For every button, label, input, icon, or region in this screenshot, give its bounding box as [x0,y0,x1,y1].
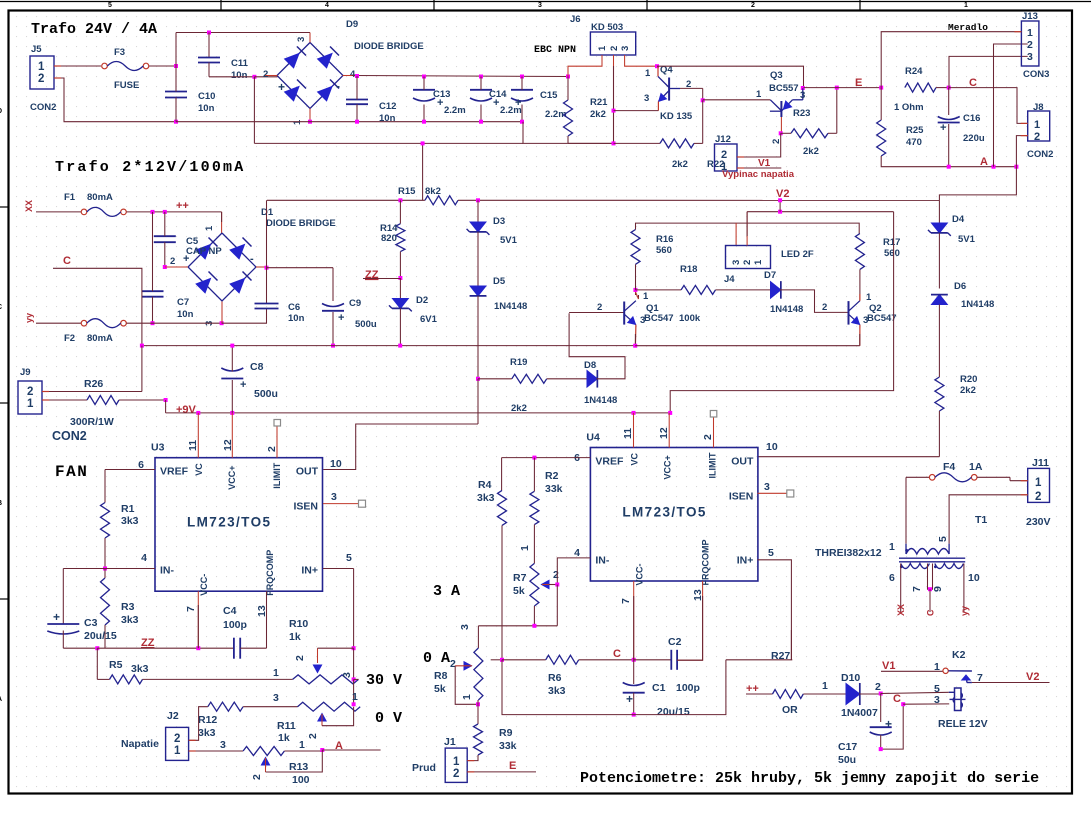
svg-text:KD 135: KD 135 [660,111,693,122]
wire J13 pin1 [1016,31,1021,33]
node KD135 collector [655,64,659,68]
svg-text:CON2: CON2 [52,429,87,443]
wire bridge D9 pin4 stub [343,75,353,77]
wire R21 top lead [567,77,569,101]
svg-text:ISEN: ISEN [729,491,754,503]
wire C15 leads [521,77,523,90]
wire R19 leads [478,378,512,380]
svg-text:2k2: 2k2 [511,403,527,414]
resistor R20 2k2 [935,377,944,411]
resistor R16 560 [631,230,640,265]
wire Q2 emitter down [859,325,861,346]
svg-text:1: 1 [38,61,45,73]
node Q3 base [779,131,783,135]
node C13 bottom [422,120,426,124]
resistor R25 470 [877,120,886,156]
wire J2 pin1 to R13 [189,750,243,752]
wire R3 bottom [104,625,106,648]
node lower rail feed [421,141,425,145]
svg-text:1: 1 [643,291,649,302]
svg-text:4: 4 [141,552,147,564]
svg-text:C: C [613,648,621,660]
node C5 top [163,210,167,214]
wire J9 pin2 riser [141,346,143,392]
transformer T1 secondary B [935,564,964,569]
svg-text:5: 5 [768,547,774,559]
node C14 bottom [479,120,483,124]
wire mid rail [142,345,635,347]
wire Q1 emitter [634,325,637,346]
wire pin3 row to C6 bottom [222,309,267,324]
svg-text:7: 7 [185,606,197,612]
fuse F4 1A [929,475,935,481]
svg-text:Vypinac napatia: Vypinac napatia [722,169,795,180]
svg-text:B: B [0,500,2,507]
svg-text:10n: 10n [288,313,305,324]
wire F1 to bridge D1 top rail [127,211,222,213]
node C7 bottom [151,321,155,325]
svg-text:2k2: 2k2 [672,159,688,170]
fuse F1 80mA [81,209,87,215]
wire R18 to D7 [716,289,771,291]
wire U4 pin7 stub [633,581,635,660]
node J13 pin2 column bottom [992,165,996,169]
svg-text:2: 2 [597,302,602,313]
wire R20 to U4 OUT [938,411,940,457]
svg-text:3: 3 [800,90,805,101]
node R10 right [352,677,356,681]
wire R12 to R11 [243,706,297,708]
svg-text:+: + [626,692,633,706]
svg-text:3: 3 [273,692,279,704]
wire bridge D1 pin1 stub [221,212,223,233]
wire R6 to C node [579,659,634,661]
svg-text:VCC-: VCC- [199,574,209,596]
wire R5 to R10 [143,678,293,680]
diode D7 1N4148 [771,282,781,299]
svg-text:J13: J13 [1022,11,1038,22]
wire C16 bottom [948,124,950,167]
svg-text:7: 7 [620,598,632,604]
svg-text:V2: V2 [1026,671,1039,683]
wire R10 right to R11 pin1 [354,678,359,680]
svg-text:7: 7 [911,586,923,592]
svg-text:C7: C7 [177,297,189,308]
svg-text:IN-: IN- [160,565,175,577]
capacitor C5 CAP NP [154,235,176,237]
svg-text:J11: J11 [1032,457,1049,469]
capacitor C16 220u [948,88,950,115]
svg-text:3k3: 3k3 [548,685,566,697]
op-amp regulator U4 LM723/TO5 box [590,448,758,582]
svg-text:1: 1 [645,68,651,79]
svg-text:+: + [493,97,499,109]
wire C14 leads [480,77,482,90]
node +9V rail right end [668,411,672,415]
svg-text:6: 6 [889,572,895,584]
svg-text:R5: R5 [109,659,123,671]
node bridge D9 pin1 [308,120,312,124]
wire bottom rail section1 [176,121,523,123]
wire R10 wiper to pin3 link [318,647,354,649]
svg-text:1: 1 [1027,27,1033,39]
svg-text:100p: 100p [223,619,247,631]
wire VCC link row [747,211,894,213]
connector J9 [18,381,42,414]
wire bridge output to C9 [267,267,334,269]
wire relay NO to V2 [972,682,1050,684]
svg-text:FUSE: FUSE [114,80,139,91]
svg-text:560: 560 [884,248,900,259]
svg-text:LED 2F: LED 2F [781,249,814,260]
svg-text:+: + [53,610,60,624]
svg-text:500u: 500u [254,388,278,400]
svg-text:470: 470 [906,137,922,148]
svg-text:CON3: CON3 [1023,69,1049,80]
svg-text:F3: F3 [114,47,125,58]
node C8 top [230,344,234,348]
transformer T1 secondary A [901,564,930,569]
wire V2 rail left end [267,199,425,201]
svg-text:1N4148: 1N4148 [494,301,527,312]
svg-text:J2: J2 [167,710,179,722]
svg-text:Trafo 24V / 4A: Trafo 24V / 4A [31,21,157,38]
wire R21 bottom lead [567,136,569,143]
svg-text:2: 2 [1035,491,1041,503]
svg-text:3: 3 [863,315,868,326]
wire bridge D1 pin3 stub [221,302,223,324]
svg-text:C4: C4 [223,605,237,617]
wire C8 top lead [231,346,233,372]
wire to fuse F4 [906,476,929,478]
wire IN+ link [726,659,792,661]
svg-text:1: 1 [174,745,181,757]
svg-text:10: 10 [968,572,980,584]
wire C5 bottom to bridge pin2 [164,242,166,267]
node R25 top [879,86,883,90]
svg-text:1k: 1k [278,732,290,744]
svg-text:D6: D6 [954,281,966,292]
wire F4 to J11 pin1 [977,476,1010,478]
node ZZ rail R5 tap [95,646,99,650]
resistor R22 2k2 [660,139,694,148]
svg-text:yy: yy [24,313,34,323]
resistor R2 33k [530,491,539,524]
wire U3 pin7 stub [197,591,199,648]
node KD503 pin2 bottom rail [612,141,616,145]
wire ZZ stub [363,278,400,280]
svg-text:R3: R3 [121,601,135,613]
svg-text:3: 3 [731,260,742,265]
svg-text:1: 1 [204,225,215,231]
wire C13 leads [423,77,425,90]
svg-text:K2: K2 [952,649,966,661]
wire C4 to U3 pin13 [240,647,266,649]
node R13 output A [320,748,324,752]
wire D5 column to OUT route [477,379,479,424]
node bridge D1 pin3 [220,321,224,325]
svg-text:+9V: +9V [176,404,197,416]
wire R7 bottom row [478,625,557,627]
svg-text:2: 2 [721,149,727,161]
node bridge D1 pin4 [265,266,269,270]
transistor Q1 BC547 [623,302,625,325]
svg-text:1: 1 [1034,119,1040,131]
svg-text:VC: VC [629,452,639,465]
svg-text:3: 3 [1027,51,1033,63]
node ZZ tap [398,276,402,280]
svg-text:500u: 500u [355,319,377,330]
wire relay pin3 feed [903,703,949,705]
wire V1 to relay common [881,670,943,672]
resistor R12 3k3 [208,702,243,711]
svg-text:F2: F2 [64,333,75,344]
svg-text:A: A [980,156,988,168]
wire F3 to node F3out [149,65,176,67]
svg-text:3: 3 [341,672,353,678]
wire KD503 pin1 [568,55,602,77]
wire ZZ rail [97,647,234,649]
wire R22 to riser [694,142,703,144]
wire KD135 base to right [680,87,703,89]
potentiometer R7 5k [530,563,539,606]
node A rail corner [1014,165,1018,169]
svg-text:++: ++ [176,200,189,212]
fuse F2 80mA [81,320,87,326]
svg-text:2: 2 [251,774,263,780]
svg-text:R13: R13 [289,761,308,773]
svg-text:1: 1 [1035,477,1042,489]
port square U3 ISEN [359,500,366,507]
connector J13 [1021,21,1039,66]
svg-text:5: 5 [937,536,949,542]
svg-text:IN-: IN- [595,555,610,567]
svg-text:R18: R18 [680,264,697,275]
wire A stub [322,749,380,751]
svg-text:1k: 1k [289,631,301,643]
svg-text:10: 10 [330,458,342,470]
node KD503 pin2 / KD135 emitter [612,109,616,113]
svg-text:R15: R15 [398,186,416,197]
svg-text:R17: R17 [883,237,900,248]
wire R17 bottom to Q2 collector [859,269,861,300]
connector J12 [715,144,738,171]
node R7 wiper [555,583,559,587]
node C16 bottom [947,165,951,169]
wire C9 top lead [332,268,334,301]
wire D6 to R20 [938,305,940,378]
wire C8 bottom lead [231,380,233,413]
resistor R4 3k3 [498,490,507,525]
LED block LED 2F [726,246,771,269]
wire U3 IN+ pin5 [323,568,354,570]
resistor R1 3k3 [101,503,110,539]
wire F3out up to top rail [175,33,177,67]
wire V2 rail middle [458,199,939,201]
svg-text:3k3: 3k3 [131,663,149,675]
wire D3 to D5 [477,232,479,286]
svg-text:R23: R23 [793,108,810,119]
svg-text:Meradlo: Meradlo [948,22,988,33]
svg-text:1N4148: 1N4148 [770,304,803,315]
diode D6 1N4148 [931,295,947,305]
capacitor C6 10n [255,303,279,305]
svg-text:2: 2 [751,2,755,9]
connector pin stubs red [54,65,61,67]
svg-text:820: 820 [381,233,397,244]
svg-text:V1: V1 [882,660,895,672]
wire secondary center C stub [929,589,931,612]
svg-text:3k3: 3k3 [477,492,495,504]
wire R8 wiper loop [455,666,478,705]
node R7 bottom [532,624,536,628]
wire +9V corner [165,400,167,413]
svg-text:3: 3 [220,739,226,751]
svg-text:3: 3 [934,694,940,706]
svg-text:R1: R1 [121,503,135,515]
svg-text:10: 10 [766,441,778,453]
node C12 top [355,74,359,78]
potentiometer R10 1k [293,675,359,684]
wire R5 left lead [96,648,98,679]
wire C11 bottom [208,63,210,77]
transformer T1 core [899,557,965,559]
svg-text:0 A: 0 A [423,650,450,667]
svg-text:ILIMIT: ILIMIT [707,452,717,478]
node C10 bottom [174,120,178,124]
svg-text:VC: VC [194,463,204,476]
wire D2 top lead [399,278,401,299]
potentiometer R11 1k [298,702,361,711]
svg-text:ILIMIT: ILIMIT [272,462,282,488]
wire C5 top lead [164,212,166,236]
svg-text:33k: 33k [545,483,563,495]
svg-text:1N4007: 1N4007 [841,707,878,719]
node C17 bottom [879,747,883,751]
connector J11 [1028,468,1050,502]
wire C1 bottom [633,693,635,715]
svg-text:+: + [437,97,443,109]
node C1 bottom [632,713,636,717]
wire bridge D9 pin2 stub [265,75,278,77]
svg-text:R25: R25 [906,125,924,136]
node secondary center [928,587,932,591]
svg-text:3: 3 [644,93,649,104]
svg-text:6V1: 6V1 [420,314,438,325]
svg-text:EBC NPN: EBC NPN [534,45,576,56]
node U3 VC pin11 tap [196,411,200,415]
svg-text:100p: 100p [676,682,700,694]
capacitor C9 500u [322,310,344,312]
wire sense rail bottom [502,660,726,715]
wire Q3 base to R23 [781,132,791,134]
wire R2 to R7 [533,525,535,564]
svg-text:D10: D10 [841,672,860,684]
wire J13 pin2 column [994,44,1028,167]
wire C17 bottom loop to C net [881,704,904,749]
svg-text:R9: R9 [499,727,513,739]
wire D8 to Q1 base staircase [569,313,625,379]
wire U4 VREF pin6 [502,457,591,459]
relay K2 common contact circle [943,668,948,673]
wire bridge D9 pin3 stub [309,33,311,43]
wire VCC riser from U4 rail [670,212,893,413]
svg-text:OUT: OUT [731,456,754,468]
connector J8 [1028,111,1050,141]
capacitor C2 [670,650,672,670]
sheet frame zone ticks top [220,0,222,10]
wire lower rail from downfeed [254,142,523,144]
svg-text:BC557: BC557 [769,83,799,94]
svg-text:1: 1 [453,756,460,768]
wire R13 wiper loop [266,750,323,772]
svg-text:FAN: FAN [55,463,88,481]
svg-text:2: 2 [453,768,459,780]
wire node to bridge D9 pin2 [254,76,277,78]
svg-text:+: + [885,717,892,731]
svg-text:2: 2 [38,73,44,85]
wire R22 riser [702,100,704,143]
node C7 top [151,210,155,214]
svg-text:C12: C12 [379,101,396,112]
node R11 pin1 [352,702,356,706]
wire C9 bottom lead [332,312,334,346]
node D10 output [879,692,883,696]
node F3out [174,64,178,68]
svg-text:80mA: 80mA [87,192,113,203]
svg-text:2: 2 [263,69,268,80]
wire D2 bottom lead [399,309,401,346]
svg-text:R6: R6 [548,672,562,684]
resistor R17 560 [855,234,864,270]
svg-text:C6: C6 [288,302,300,313]
svg-text:1: 1 [299,739,305,751]
node D3 column top [476,198,480,202]
svg-text:ISEN: ISEN [293,501,318,513]
svg-text:1: 1 [27,398,34,410]
wire LED pin2 stub [746,212,748,246]
wire E node to R24 [804,87,882,89]
wire row down to R8 top [477,626,479,648]
resistor R23 2k2 [791,129,828,138]
svg-text:E: E [509,760,516,772]
svg-text:BC547: BC547 [644,313,674,324]
svg-text:R19: R19 [510,357,527,368]
svg-text:C: C [926,609,936,616]
svg-text:3: 3 [538,2,542,9]
wire R16 top to LED pin3 and R17 top [636,223,860,233]
svg-text:RELE 12V: RELE 12V [938,718,988,730]
svg-text:20u/15: 20u/15 [84,630,117,642]
wire lower-rail to R15 feed [422,143,424,200]
capacitor C14 [470,89,492,91]
capacitor C15 [511,89,533,91]
node C12 bottom [355,120,359,124]
svg-text:ZZ: ZZ [365,269,379,281]
svg-text:2: 2 [174,733,180,745]
sheet frame outer line [0,1,1091,3]
node R19 junction [476,377,480,381]
transistor Q4 KD135 [668,78,670,101]
svg-text:2: 2 [553,569,559,581]
wire secondary pin10 yy stub [963,564,965,613]
svg-text:CAP NP: CAP NP [186,246,222,257]
wire C10 bottom [175,98,177,122]
resistor R9 33k [474,724,483,755]
op-amp regulator U3 LM723/TO5 box [155,458,323,592]
svg-text:CON2: CON2 [1027,149,1053,160]
wire R4 top lead [501,458,503,491]
